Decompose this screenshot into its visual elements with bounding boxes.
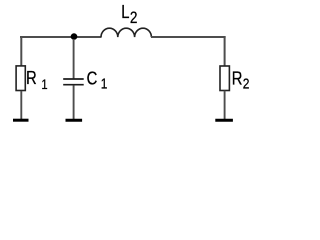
svg-text:L: L bbox=[121, 1, 129, 22]
node junction dot bbox=[71, 33, 78, 40]
wire: inductor to top-right corner (horizontal) bbox=[151, 36, 226, 38]
svg-text:1: 1 bbox=[101, 75, 108, 92]
wire: R1 top to corner (vertical) bbox=[20, 36, 22, 66]
ground under C1 bbox=[66, 119, 83, 122]
resistor R1 body bbox=[16, 66, 25, 91]
svg-text:R: R bbox=[232, 68, 243, 89]
wire: C1 bottom plate to ground bbox=[73, 85, 75, 119]
svg-text:2: 2 bbox=[130, 9, 138, 28]
label L2 bbox=[121, 1, 137, 27]
wire: R2 bottom to ground bbox=[224, 91, 226, 120]
wire: top-left corner to inductor (horizontal) bbox=[20, 36, 102, 38]
label C1 bbox=[87, 68, 108, 92]
svg-text:1: 1 bbox=[41, 77, 47, 92]
wire: junction dot down to C1 top plate bbox=[73, 39, 75, 79]
svg-text:R: R bbox=[26, 67, 37, 88]
wire: corner down to R2 top (vertical) bbox=[224, 36, 226, 66]
capacitor C1 bottom plate bbox=[63, 84, 83, 86]
inductor L2 bbox=[101, 28, 151, 37]
ground under R2 bbox=[215, 119, 233, 122]
resistor R2 body bbox=[220, 66, 229, 91]
svg-text:C: C bbox=[87, 68, 98, 89]
label R1 bbox=[26, 67, 48, 92]
svg-text:2: 2 bbox=[243, 75, 250, 92]
ground under R1 bbox=[13, 119, 29, 122]
label R2 bbox=[232, 68, 250, 92]
capacitor C1 top plate bbox=[63, 78, 83, 80]
wire: R1 bottom to ground bbox=[20, 91, 22, 120]
